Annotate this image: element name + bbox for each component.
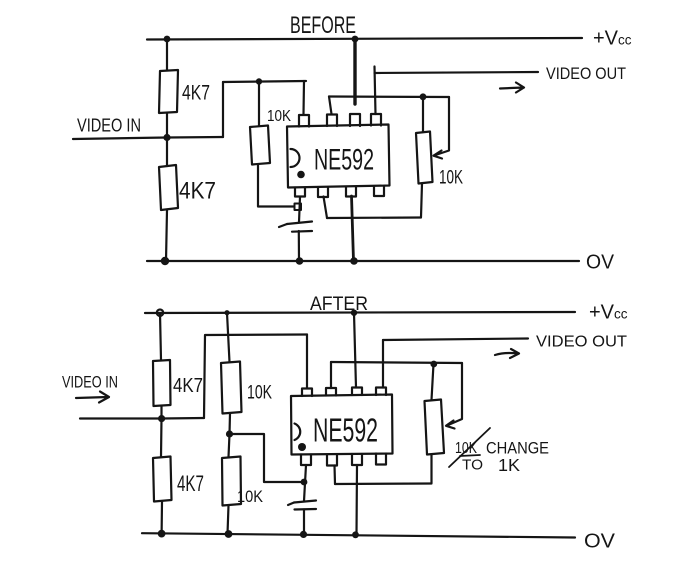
0V rail (before) (147, 260, 579, 262)
wire: down to pot RV2 (432, 364, 434, 400)
+Vcc rail (after) (145, 312, 575, 313)
wire: midpoint to R6 (229, 434, 230, 457)
op-amp U1 NE592 body (287, 125, 390, 188)
svg-text:NE592: NE592 (314, 144, 374, 177)
svg-text:NE592: NE592 (313, 412, 378, 449)
wire: up from video-in (222, 82, 224, 137)
wire: R5 to midpoint node (228, 414, 231, 435)
potentiometer RV1 10K body (416, 132, 433, 184)
resistor R5 10K (after upper) (221, 362, 242, 414)
wire: C1 to 0V (298, 231, 300, 261)
pin bottom-4 of U1 (374, 187, 384, 197)
wire: video out drop to pin top-4 (375, 67, 376, 115)
wire: R3 to 0V (166, 210, 167, 261)
resistor R6 10K (after lower) (222, 457, 241, 506)
node: junction dot at IC supply (after) (351, 310, 357, 316)
wire: C2 to 0V (303, 510, 305, 535)
0V rail (after) (142, 533, 575, 537)
wire: video in (after) (80, 417, 204, 420)
pin-1 notch of U2 (295, 424, 301, 441)
wire: up to pin bottom-2 (after) (333, 466, 336, 485)
pin top-3 of U1 (350, 114, 360, 126)
arrow: video in direction (76, 392, 109, 403)
node: 0V junction at R6 (225, 530, 233, 538)
potentiometer RV2 body (425, 400, 445, 455)
wire: video out drop to pin top-4 (after) (382, 340, 384, 388)
svg-text:BEFORE: BEFORE (290, 12, 356, 39)
wire: video out line (375, 72, 539, 73)
wire: +Vcc to R5 (227, 313, 230, 362)
svg-text:1K: 1K (498, 455, 520, 475)
wire: pin bottom-3 to 0V (after) (355, 465, 358, 535)
node: junction square at cap top (295, 204, 302, 211)
wire: corner down to pin top-2 (after) (330, 362, 332, 388)
capacitor C2 tick (288, 503, 294, 506)
+Vcc rail (top) (147, 38, 582, 40)
svg-text:4K7: 4K7 (179, 178, 216, 205)
wire: horizontal to pin A (223, 81, 306, 82)
wire: R2 bottom to cap node (258, 165, 294, 207)
pin bottom-1 of U1 (295, 188, 305, 197)
arrow: video out direction (after) (495, 349, 519, 358)
pin-1 notch of U1 (291, 149, 300, 167)
node: 0V junction at R7 (158, 530, 166, 538)
pin bottom-2 of U2 (327, 455, 337, 466)
wire: horizontal back to pin bottom-2 (327, 216, 421, 219)
node: video-in junction dot (163, 134, 170, 141)
wire: RV1 bottom down (421, 184, 422, 218)
capacitor C2 bottom plate (295, 508, 317, 511)
node: junction dot between R5/R6 (226, 430, 233, 437)
wire: gain network horizontal (329, 95, 449, 98)
wire: RV2 bottom down (430, 455, 432, 484)
svg-text:4K7: 4K7 (182, 82, 210, 105)
wire: slant up to pin bottom-2 (324, 197, 328, 219)
svg-text:4K7: 4K7 (173, 375, 203, 397)
wire: wiper feed of RV2 (447, 363, 462, 426)
svg-text:VIDEO OUT: VIDEO OUT (546, 64, 626, 83)
wire: video-in node to R7 (160, 419, 163, 458)
wire: R6 to 0V (228, 506, 229, 535)
wire: down to pot RV1 (422, 97, 424, 132)
svg-text:10K: 10K (247, 382, 272, 404)
wire: R1 to video-in node (166, 113, 168, 137)
pin bottom-3 of U1 (346, 187, 356, 197)
wire: midpoint over to cap node (230, 434, 305, 482)
resistor R2 10K (250, 126, 270, 165)
resistor R4 4K7 (after upper-left) (153, 360, 171, 406)
node: 0V junction at left branch (161, 257, 169, 265)
node: 0V junction at pin3 (352, 531, 359, 538)
svg-text:10K: 10K (267, 108, 292, 125)
pin top-2 of U2 (326, 388, 336, 396)
wire: wiper feed of RV1 (434, 97, 449, 156)
wire: +Vcc drop to pin top-3 (354, 313, 356, 388)
node: junction dot above pot (after) (430, 361, 437, 368)
pin-1 dot of U1 (297, 171, 305, 179)
pin-1 dot of U2 (298, 443, 306, 451)
pin bottom-1 of U2 (301, 455, 311, 466)
overline of TO (460, 455, 480, 456)
op-amp U2 NE592 body (291, 395, 393, 455)
pin top-1 of U1 (299, 115, 309, 127)
wire: pin bottom-1 to capacitor (299, 197, 300, 222)
wire: +Vcc to R4 (160, 313, 161, 360)
wire: corner down to pin top-2 (329, 97, 332, 115)
svg-text:4K7: 4K7 (177, 471, 204, 496)
wire: pin bottom-3 to 0V (352, 196, 354, 261)
wire: up and over to pin top-1 (204, 335, 307, 419)
svg-text:10K: 10K (439, 168, 463, 189)
resistor R3 4K7 (lower left) (159, 165, 178, 210)
node: open circle junction at left branch (157, 310, 163, 316)
wiper arrowhead of RV1 (434, 151, 443, 159)
capacitor C1 top plate (287, 222, 312, 225)
pin top-3 of U2 (352, 388, 362, 396)
pin top-1 of U2 (302, 389, 312, 397)
wire: horizontal back to pin bottom-2 (after) (335, 482, 432, 485)
wire: video-in node to R3 (166, 138, 168, 167)
wire: gain network horizontal (after) (331, 362, 462, 363)
pin top-2 of U1 (327, 115, 337, 127)
node: junction dot on +Vcc at left branch (164, 36, 171, 43)
wire: down to R2 (258, 81, 260, 126)
node: junction dot at cap top (after) (301, 479, 308, 486)
svg-text:OV: OV (584, 531, 616, 553)
resistor R7 4K7 (after lower-left) (153, 457, 172, 502)
pin bottom-4 of U2 (376, 454, 386, 465)
svg-text:VIDEO IN: VIDEO IN (62, 374, 118, 392)
wire: R4 to video-in node (160, 406, 162, 418)
node: 0V junction at pin3 (350, 257, 358, 265)
wire: R7 to 0V (161, 502, 164, 535)
node: junction dot to R2 (256, 78, 262, 84)
resistor R1 4K7 (upper left) (159, 70, 178, 113)
svg-text:VIDEO IN: VIDEO IN (77, 116, 141, 136)
wire: video in (73, 137, 223, 139)
wiper arrowhead of RV2 (446, 421, 455, 429)
svg-text:OV: OV (586, 252, 615, 274)
node: 0V junction at C2 (300, 531, 307, 538)
wire: drop to pin top-1 (306, 335, 308, 389)
capacitor C2 top plate (294, 501, 316, 503)
svg-text:TO: TO (462, 457, 483, 474)
wire: pin A lead (302, 81, 305, 114)
pin bottom-3 of U2 (352, 454, 362, 465)
node: junction dot above pot (420, 93, 427, 100)
wire: video out line (after) (383, 339, 528, 341)
node: video-in junction dot (after) (158, 415, 165, 422)
capacitor C1 bottom plate (292, 230, 312, 233)
wire: +Vcc drop to U1 (353, 39, 356, 104)
capacitor C1 tick (279, 224, 287, 227)
pin top-4 of U1 (371, 114, 381, 126)
strike: slash through 10K (449, 428, 490, 467)
svg-text:10K: 10K (237, 487, 264, 506)
node: junction mark at second branch (224, 310, 229, 315)
arrow: video out direction (500, 83, 524, 93)
pin bottom-2 of U1 (318, 188, 328, 198)
node: junction dot on +Vcc at IC supply (352, 36, 359, 43)
pin top-4 of U2 (376, 388, 386, 396)
wire: pin bottom-1 to capacitor C2 (304, 465, 306, 501)
svg-text:VIDEO OUT: VIDEO OUT (536, 334, 627, 351)
node: 0V junction at cap (296, 257, 304, 265)
wire: +Vcc to R1 (166, 39, 168, 70)
